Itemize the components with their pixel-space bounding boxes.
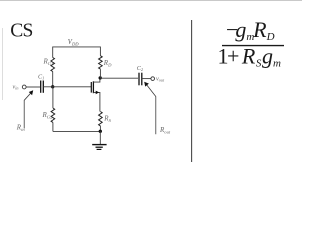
svg-text:−gmRD: −gmRD bbox=[226, 17, 275, 43]
wire vin to C1 bbox=[26, 86, 40, 88]
wire drain node to C2 bbox=[100, 77, 138, 79]
svg-text:vout: vout bbox=[156, 76, 165, 83]
svg-text:VDD: VDD bbox=[68, 39, 79, 47]
svg-text:RG1: RG1 bbox=[43, 58, 54, 66]
node gate junction bbox=[51, 85, 54, 88]
fraction bar bbox=[222, 45, 284, 47]
divider line bbox=[191, 20, 193, 162]
svg-text:CS: CS bbox=[10, 21, 32, 42]
ground bbox=[92, 131, 106, 149]
wire C1 to gate node and MOSFET gate bbox=[43, 86, 91, 88]
svg-text:1+RSgm: 1+RSgm bbox=[218, 44, 281, 70]
svg-text:C2: C2 bbox=[137, 65, 143, 72]
wire RG1 to gate node bbox=[52, 72, 54, 87]
capacitor C2 bbox=[139, 73, 142, 86]
resistor RD bbox=[99, 56, 103, 78]
supply rail VDD bbox=[53, 47, 101, 58]
svg-text:Rout: Rout bbox=[159, 126, 171, 134]
input terminal vin bbox=[22, 85, 26, 89]
output terminal vout bbox=[151, 77, 155, 81]
svg-text:RD: RD bbox=[103, 59, 112, 67]
resistor RS bbox=[99, 112, 103, 132]
svg-text:vin: vin bbox=[13, 84, 19, 91]
node drain junction bbox=[99, 76, 102, 79]
capacitor C1 bbox=[41, 81, 44, 93]
resistor RG2 bbox=[51, 87, 55, 132]
wire C2 to vout terminal bbox=[142, 78, 151, 80]
Rout arrow bbox=[144, 82, 156, 135]
resistor RG1 bbox=[51, 58, 55, 72]
transistor M1 bbox=[91, 78, 100, 112]
svg-text:RS: RS bbox=[103, 115, 111, 123]
node source-ground junction bbox=[99, 130, 102, 133]
Rin arrow bbox=[24, 90, 33, 128]
wire RG2 bottom to ground node bbox=[53, 130, 100, 132]
svg-text:C1: C1 bbox=[38, 73, 44, 80]
top page border (decorative) bbox=[0, 0, 302, 2]
